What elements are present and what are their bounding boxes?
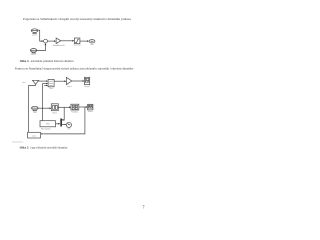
wire G2 to scope SC1 [72,80,83,82]
scope block SC1 [84,77,89,84]
wire gain to saturation [61,40,73,42]
arrowhead into gain G2 [65,80,67,82]
svg-text:7: 7 [143,205,145,210]
selector nub top [62,119,64,121]
wire TR2 to mux top input [39,80,47,82]
diagram 2 : rotated gain triangle TR2 [33,80,39,84]
wire TF2 to scope SC2 [79,106,86,108]
svg-text:Scope1: Scope1 [84,86,90,88]
wire saturation to out [80,40,87,42]
wire SG3 to TF1 [38,107,49,109]
svg-text:Pogonski se Simulinkom i drugi: Pogonski se Simulinkom i drugim sucelji … [23,17,132,21]
wire mux to gain G2 [54,80,64,82]
svg-text:Pomocu su Simulinku2 drugorazr: Pomocu su Simulinku2 drugorazredni susta… [15,66,134,70]
svg-text:Jaga reklanirly autoreklji din: Jaga reklanirly autoreklji dinamian [30,145,67,149]
wire PID to selector [56,123,59,125]
arrowhead into sum bottom [45,43,47,45]
selector bar MX2 [60,119,62,127]
wire mux bottom input [44,85,46,87]
arrowhead mux input 3 [46,85,48,87]
svg-text:Mux: Mux [50,88,53,90]
diagram 1 : signal source SG1 [31,29,38,33]
svg-text:odziv: odziv [22,82,26,84]
branch down to selector bar [62,107,64,120]
svg-text:Gain1: Gain1 [67,86,72,88]
arrowhead into saturation [72,40,74,42]
wire SG2 to sum [37,45,46,51]
gain G2 triangle [66,77,71,84]
gain G1 triangle [56,38,61,44]
arrowhead mux input 2 [46,83,48,85]
arrowhead mux input 1 [46,80,48,82]
svg-text:PID: PID [46,124,50,126]
arrowhead into gain G1 [54,40,56,42]
gauge block CL1 [66,122,71,127]
svg-text:Slika 4.: Slika 4. [20,59,30,63]
selector nub out [62,124,65,126]
branch rail down from mux feed [42,84,44,121]
PID block [40,121,56,127]
feedback branch down right [43,107,85,134]
arrowhead into scope SC1 [83,80,85,82]
signal source SG3 [32,106,39,111]
junction dot [42,108,43,109]
svg-text:Izlaz: Izlaz [90,44,94,46]
svg-text:Scope: Scope [88,111,93,113]
transfer fcn TF1 [51,104,58,111]
svg-text:Zasicenje: Zasicenje [73,45,80,47]
arrowhead into gauge [65,124,67,125]
svg-text:PID regulator: PID regulator [41,127,51,130]
svg-text:Reduktor: Reduktor [71,110,78,113]
arrowhead into sensor block [41,133,43,135]
sensor block SN1 [28,132,41,138]
wire mux middle input [43,83,47,85]
svg-text:pretvornik s.: pretvornik s. [12,140,24,143]
mux block MX1 [48,79,54,86]
arrowhead into out oval [87,40,89,42]
output port O1 [89,40,95,43]
wire TR2 down to left rail [29,84,36,85]
svg-text:Amplifikator A1: Amplifikator A1 [53,44,64,47]
wire sum to gain G1 [47,40,54,42]
arrowhead into TF2 [69,106,71,108]
svg-text:Izvor 1: Izvor 1 [32,34,37,37]
svg-text:Automatski prikladani ilustrar: Automatski prikladani ilustraren dinamia… [31,59,74,63]
wire SG1 to sum [38,30,42,41]
sum junction S1 [44,39,48,43]
arrowhead into TF1 [49,107,51,109]
arrowhead into selector bar [58,123,60,125]
transfer fcn TF2 [71,104,79,110]
svg-text:Ulaz: Ulaz [33,112,37,114]
arrowhead into sum left [42,40,44,42]
svg-text:Slika 5.: Slika 5. [20,145,30,149]
left feedback rail [28,85,30,132]
svg-text:sens: sens [32,135,36,137]
svg-text:Izvor 2: Izvor 2 [31,53,36,56]
arrowhead into scope SC2 [86,106,88,108]
svg-text:Motor: Motor [53,111,58,114]
signal source SG2 [30,49,37,54]
saturation block SAT1 [74,38,80,44]
scope block SC2 [88,104,93,110]
wire TF1 to TF2 [58,106,69,108]
